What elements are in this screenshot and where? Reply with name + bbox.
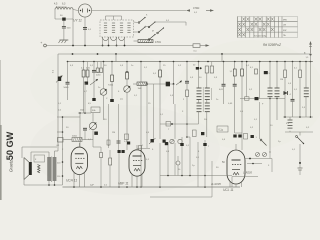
svg-text:UY 11: UY 11 <box>73 19 82 23</box>
resistor R10 <box>210 66 213 73</box>
svg-text:LW: LW <box>283 25 286 27</box>
winding L4 <box>120 22 123 24</box>
switch contact S1e <box>157 32 159 34</box>
IF T1 core <box>202 87 204 112</box>
wire <box>241 76 243 133</box>
choke winding <box>304 87 309 89</box>
transformer core <box>51 157 53 183</box>
capacitor C19 <box>100 153 103 158</box>
capacitor C17 <box>58 138 64 143</box>
wire y99 <box>240 98 285 100</box>
svg-text:2µF: 2µF <box>90 184 94 186</box>
wire <box>83 77 85 113</box>
trimmer arrow <box>90 79 98 85</box>
capacitor C20 <box>117 140 121 142</box>
component <box>166 122 171 127</box>
wire <box>235 144 237 150</box>
wire <box>67 84 69 100</box>
wire <box>276 62 278 89</box>
tube V1 pins <box>73 173 75 188</box>
svg-text:UBF 11: UBF 11 <box>118 182 129 186</box>
wire <box>159 77 161 139</box>
node <box>72 53 74 55</box>
wire y113 <box>78 112 91 114</box>
node <box>249 158 251 160</box>
wire <box>299 78 301 118</box>
wire <box>305 62 307 89</box>
wire <box>92 10 186 12</box>
wire <box>167 143 169 176</box>
wire <box>146 84 148 148</box>
tube V2 (UBF11) <box>129 150 145 176</box>
wire <box>103 96 105 120</box>
resistor R9 <box>205 66 208 73</box>
wire <box>211 161 213 197</box>
wire <box>105 16 107 20</box>
box with cross <box>205 141 207 143</box>
wire <box>126 93 128 150</box>
switch contact S1d <box>148 39 150 41</box>
svg-text:Rd 0298PuZ: Rd 0298PuZ <box>263 43 282 47</box>
wire <box>292 62 294 100</box>
node <box>140 186 142 188</box>
tube V3 pins <box>229 182 231 187</box>
wire <box>189 137 191 176</box>
tube V1 (UCH11) <box>71 147 87 174</box>
tuning capacitor CV2 <box>124 86 131 93</box>
capacitor C10 <box>185 80 189 82</box>
potentiometer P1 <box>58 77 61 82</box>
wire <box>111 62 113 76</box>
resistor R11 <box>233 69 236 76</box>
IF transformer T2 winding b <box>275 87 280 89</box>
svg-text:Graetz: Graetz <box>9 160 14 172</box>
wire <box>92 113 94 122</box>
component blob <box>180 143 183 146</box>
IF transformer T2 winding a <box>268 87 273 89</box>
bottom bus main <box>63 186 241 188</box>
svg-text:50kΩ: 50kΩ <box>72 135 77 137</box>
wire y163 <box>247 163 262 165</box>
svg-text:UCL 11: UCL 11 <box>223 188 234 192</box>
output transformer primary <box>47 157 51 159</box>
svg-text:1kΩ: 1kΩ <box>80 110 84 112</box>
node <box>48 184 50 186</box>
wire <box>198 100 200 103</box>
bottom bus <box>30 184 63 186</box>
wire <box>93 72 95 99</box>
wire <box>84 83 86 113</box>
core bump 2 <box>111 37 117 41</box>
wire y197 <box>150 196 212 198</box>
wire <box>62 117 64 185</box>
component <box>245 97 250 100</box>
component <box>107 140 110 145</box>
resistor R3 <box>86 70 89 77</box>
node <box>167 175 169 177</box>
wire <box>134 40 139 42</box>
resistor R1 <box>138 40 153 43</box>
capacitor C2 <box>62 25 66 27</box>
switch S2 <box>296 136 298 138</box>
capacitor C7 <box>96 68 99 72</box>
wire <box>271 159 273 173</box>
IF transformer T1 winding a <box>197 87 202 89</box>
wire <box>63 21 65 26</box>
wire <box>48 152 50 158</box>
switch contact S1b <box>138 31 140 33</box>
resistor R4 <box>111 75 114 82</box>
IF transformer T1 winding d <box>205 102 210 104</box>
wire y132 <box>285 131 313 133</box>
wire <box>241 62 243 70</box>
capacitor C9 <box>166 82 170 87</box>
wire y84 <box>133 83 137 85</box>
node a <box>310 54 312 56</box>
svg-text:MW: MW <box>283 20 287 22</box>
speaker field coil <box>38 165 41 173</box>
wire <box>173 84 175 104</box>
wire <box>186 97 188 138</box>
trimmer blobs <box>151 139 154 142</box>
core bump 1 <box>103 37 109 41</box>
node <box>252 163 254 165</box>
capacitor C16 <box>291 98 295 100</box>
winding L2 <box>104 22 107 24</box>
aerial arrow <box>310 44 312 53</box>
tuning capacitor CV3 <box>89 122 96 129</box>
wire <box>23 180 25 186</box>
node <box>246 61 248 63</box>
component blob <box>110 99 114 102</box>
resistor R5 <box>126 72 129 79</box>
core bump 3 <box>119 37 125 41</box>
wire <box>21 147 23 158</box>
node <box>173 83 175 85</box>
resistor R12 <box>241 69 244 76</box>
wire <box>223 86 225 104</box>
wire <box>115 54 117 62</box>
wire <box>79 113 81 147</box>
svg-text:1M: 1M <box>280 79 283 81</box>
wire y133r <box>235 132 242 134</box>
svg-text:Li R205: Li R205 <box>243 171 252 175</box>
chassis ground <box>60 39 69 41</box>
wire <box>103 62 105 89</box>
wire y124 <box>160 123 199 125</box>
wire <box>108 104 110 148</box>
wire <box>185 22 187 26</box>
capacitor C15 <box>264 71 268 74</box>
capacitor blobs <box>233 135 236 138</box>
wire <box>299 62 301 71</box>
IF transformer T1 winding b <box>205 87 210 89</box>
node <box>146 83 148 85</box>
wire <box>102 37 104 46</box>
component small <box>92 98 95 101</box>
component <box>193 130 197 137</box>
wire <box>269 62 271 89</box>
resistor R6 <box>137 82 147 85</box>
node <box>189 175 191 177</box>
component blobs <box>118 150 121 153</box>
wire <box>269 150 271 159</box>
wire <box>299 132 301 136</box>
wire <box>259 62 261 99</box>
arrow <box>206 44 210 46</box>
wire <box>186 83 188 90</box>
heater winding <box>288 119 293 121</box>
switch contact S1c <box>148 26 150 28</box>
wire <box>54 10 56 20</box>
svg-text:50 GW: 50 GW <box>5 131 15 160</box>
resistor R7 <box>159 70 162 77</box>
svg-text:UCH 11: UCH 11 <box>66 179 77 183</box>
capacitor C12 <box>222 83 226 85</box>
wire <box>63 28 65 40</box>
svg-text:Schalterstellg.: Schalterstellg. <box>254 34 267 37</box>
wire <box>197 142 199 187</box>
capacitor C18 <box>83 127 87 129</box>
round contacts <box>170 139 174 143</box>
tube V4 (UY11 envelope) <box>78 4 91 17</box>
wire <box>259 102 261 139</box>
wire y140 <box>63 139 72 141</box>
wire <box>73 10 78 11</box>
component box <box>91 107 100 113</box>
switch S3 <box>260 139 262 141</box>
bus A (+) <box>46 45 193 47</box>
resistor R14 <box>299 70 302 78</box>
tube V2 pins <box>131 175 133 188</box>
switch position table <box>238 17 298 38</box>
wire <box>200 45 206 47</box>
wire <box>57 54 59 151</box>
fuse box <box>193 44 200 48</box>
bus B <box>58 53 311 55</box>
diode detector <box>284 91 288 95</box>
svg-text:470Ω: 470Ω <box>193 6 199 10</box>
wire <box>140 85 142 187</box>
wire tube3 right <box>245 158 272 160</box>
wire y147b <box>92 140 94 147</box>
wire <box>134 21 140 24</box>
wire <box>159 62 161 71</box>
svg-text:7x6Ω: 7x6Ω <box>108 85 114 87</box>
wire <box>72 10 74 46</box>
wire <box>234 76 236 84</box>
svg-text:4L R205: 4L R205 <box>211 182 221 186</box>
wire <box>198 62 200 68</box>
wire <box>48 180 50 185</box>
wire <box>126 62 128 73</box>
wire <box>22 146 57 148</box>
wire <box>111 82 113 100</box>
resistor R15 <box>72 138 82 142</box>
component blob <box>165 142 168 145</box>
tube V3 (UCL11) <box>227 150 245 184</box>
wire <box>153 84 155 139</box>
wire <box>126 79 128 85</box>
terminal + <box>44 44 47 47</box>
node <box>62 116 64 118</box>
trimmer arrow <box>176 81 182 85</box>
node <box>269 98 271 100</box>
resistor R8 <box>186 90 189 97</box>
component <box>203 143 206 146</box>
component <box>244 134 248 140</box>
wire <box>284 78 286 118</box>
component blob <box>255 97 259 100</box>
wire <box>54 151 56 158</box>
svg-text:KW: KW <box>283 30 286 32</box>
grid cap wire <box>78 143 80 147</box>
capacitor C4 <box>66 81 70 83</box>
field coil box <box>34 155 45 162</box>
svg-text:5000: 5000 <box>64 87 70 89</box>
wire y148 <box>137 148 150 150</box>
node <box>73 186 75 188</box>
page edge shadow <box>0 125 2 200</box>
winding L5 <box>127 22 130 24</box>
node <box>102 45 104 47</box>
node <box>79 112 81 114</box>
resistor R13 <box>284 70 287 78</box>
tuning capacitor CV1 <box>100 89 107 96</box>
capacitor C5 <box>85 82 89 85</box>
resistor R16 <box>109 158 112 165</box>
capacitor blobs2 <box>251 135 254 138</box>
antenna coil L1 <box>55 8 58 10</box>
wire <box>292 101 294 117</box>
svg-text:470Ω: 470Ω <box>155 41 161 44</box>
wire <box>181 137 183 176</box>
node <box>186 123 188 125</box>
wire <box>223 62 225 85</box>
boxed label <box>217 126 228 132</box>
wire <box>159 143 161 187</box>
wire <box>204 140 206 187</box>
wire <box>140 62 142 83</box>
resistor R2 <box>82 70 85 77</box>
svg-text:osz: osz <box>120 99 123 101</box>
wire <box>136 145 138 150</box>
wire y117 <box>283 116 313 118</box>
wire <box>106 15 122 17</box>
wire <box>269 97 271 150</box>
wire <box>186 62 188 82</box>
wire <box>305 97 307 117</box>
dimension arrow left <box>186 9 190 11</box>
component <box>125 134 129 140</box>
wire <box>57 131 63 133</box>
table cross marks <box>238 18 273 37</box>
wire <box>118 104 120 150</box>
wire <box>83 62 85 71</box>
wire <box>234 86 236 133</box>
mains plug <box>298 167 303 169</box>
bus C junctions <box>67 61 69 63</box>
jack <box>176 161 180 165</box>
wire <box>67 62 69 83</box>
speaker <box>29 162 32 175</box>
capacitor blob <box>94 132 98 135</box>
capacitor C6 <box>92 69 96 71</box>
wire <box>246 62 248 97</box>
node <box>72 45 74 47</box>
wire <box>234 62 236 70</box>
node <box>126 71 128 73</box>
jack contacts <box>256 153 260 157</box>
capacitor C3 <box>83 27 87 29</box>
wire <box>231 177 233 188</box>
wire <box>93 62 95 71</box>
wire <box>173 62 175 85</box>
wire <box>174 104 176 139</box>
dimension arrow right <box>206 10 210 12</box>
winding L3 <box>112 22 115 24</box>
wire <box>284 62 286 71</box>
IF transformer T1 winding c <box>197 102 202 104</box>
node <box>299 162 301 164</box>
capacitor C13 <box>233 83 237 85</box>
wire <box>310 54 312 117</box>
capacitor C14 <box>255 69 258 74</box>
bus C (main) <box>68 61 314 63</box>
output transformer secondary <box>53 157 57 159</box>
coil pack enclosure <box>100 20 134 37</box>
wire y175 <box>160 175 232 177</box>
capacitor C1 <box>62 18 65 21</box>
switch contact S1a <box>138 22 140 24</box>
wire <box>55 18 73 20</box>
component <box>139 146 142 151</box>
capacitor C11 <box>196 67 199 70</box>
wire y176r <box>232 176 258 178</box>
svg-text:2M: 2M <box>112 132 115 134</box>
capacitor C8 <box>100 68 103 72</box>
svg-text:0,1µ: 0,1µ <box>219 130 224 132</box>
node <box>284 116 286 118</box>
wire <box>289 117 291 120</box>
wire <box>57 116 80 118</box>
svg-text:x: x <box>208 146 209 148</box>
node <box>171 123 173 125</box>
wire <box>84 17 86 45</box>
svg-text:+: + <box>40 41 42 45</box>
